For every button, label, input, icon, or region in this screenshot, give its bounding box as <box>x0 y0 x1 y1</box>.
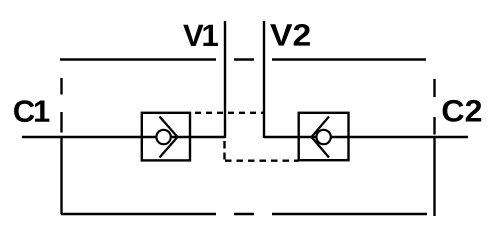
check valve box left <box>142 113 190 161</box>
check valve seat right <box>312 117 330 158</box>
wire V2 vertical <box>263 21 265 138</box>
boundary right dash 1 <box>433 79 435 97</box>
label V2 <box>270 24 310 46</box>
wire C1 main line <box>22 136 225 138</box>
wire C2 main line <box>264 136 468 138</box>
boundary top segment right <box>272 58 426 60</box>
pilot line dashed to left valve <box>190 112 264 114</box>
boundary left dash 1 <box>60 78 62 95</box>
boundary right solid lower <box>433 137 435 216</box>
pilot line dashed to right valve vertical <box>223 141 225 160</box>
check valve ball left <box>156 130 170 144</box>
label V1 <box>183 25 218 46</box>
check valve seat left <box>160 117 178 158</box>
wire V1 vertical <box>224 21 226 138</box>
label C2 <box>443 100 482 122</box>
boundary bottom segment right <box>272 213 427 215</box>
label C1 <box>14 100 49 122</box>
boundary top dash middle <box>234 58 254 60</box>
check valve box right <box>299 113 349 160</box>
boundary bottom segment left <box>61 213 216 215</box>
boundary bottom dash middle <box>234 213 254 215</box>
boundary top segment left <box>60 58 216 60</box>
pilot line dashed to right valve horizontal <box>225 159 299 161</box>
boundary left dash 2 <box>60 112 62 133</box>
boundary left solid lower <box>60 136 62 214</box>
check valve ball right <box>316 130 330 144</box>
boundary right dash 2 <box>433 117 435 135</box>
